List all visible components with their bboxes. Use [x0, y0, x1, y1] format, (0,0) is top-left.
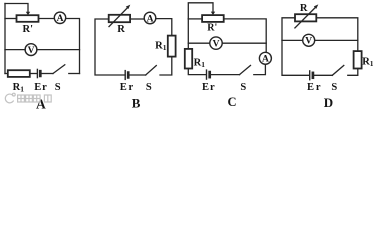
wire B right lower vertical — [160, 57, 172, 75]
svg-text:A: A — [57, 14, 64, 24]
svg-text:R1: R1 — [362, 57, 373, 69]
wire B left side — [95, 19, 125, 75]
rheostat R arrow (B) — [109, 5, 130, 27]
svg-text:S: S — [146, 82, 152, 93]
svg-text:S: S — [240, 82, 246, 93]
svg-text:R': R' — [23, 24, 34, 35]
rheostat R body (B) — [109, 15, 130, 22]
svg-text:V: V — [305, 37, 312, 47]
resistor R1 body (D) — [354, 51, 362, 68]
circuit B — [95, 5, 176, 111]
wire A battery to switch — [42, 73, 53, 75]
svg-text:C: C — [228, 95, 237, 109]
circuit A — [5, 4, 80, 112]
battery E,r (B) — [125, 71, 128, 80]
wire C left vertical — [187, 19, 189, 49]
wire A left vertical — [4, 4, 6, 74]
watermark — [5, 93, 51, 103]
circuit D — [282, 3, 373, 110]
svg-text:B: B — [132, 95, 141, 109]
wire C voltmeter branch right — [222, 42, 266, 44]
switch S contact wire (A) — [69, 73, 80, 75]
svg-text:R1: R1 — [155, 41, 167, 53]
wire A bottom mid — [30, 73, 37, 75]
rheostat R arrow (D) — [295, 4, 318, 28]
wire C voltmeter branch left — [188, 42, 210, 44]
wire A voltmeter branch right — [37, 49, 80, 51]
wire C ammeter to bottom — [254, 64, 266, 74]
wire C left lower — [188, 69, 206, 75]
rheostat R' slider arrow (A) — [26, 12, 30, 16]
svg-text:R1: R1 — [13, 82, 25, 94]
wire C battery to switch — [211, 74, 239, 76]
switch S blade (C) — [240, 65, 251, 74]
svg-text:V: V — [213, 40, 220, 50]
switch S blade (B) — [146, 66, 157, 75]
wire B row1 mid — [130, 18, 144, 20]
circuit C — [185, 3, 272, 109]
svg-text:Er: Er — [202, 82, 215, 93]
wire D top right — [316, 18, 358, 51]
wire D voltmeter branch left — [282, 39, 303, 41]
wire A row1 left — [5, 18, 17, 20]
svg-text:R: R — [117, 24, 125, 35]
svg-text:A: A — [147, 14, 154, 24]
battery E,r (D) — [310, 71, 313, 80]
wire A slider loop — [5, 4, 28, 13]
wire C slider loop — [188, 3, 213, 19]
ammeter A (B) — [144, 12, 156, 24]
switch S blade (D) — [332, 65, 344, 75]
ammeter A (C) — [259, 52, 271, 64]
wire A bottom left — [5, 73, 8, 75]
wire D battery to switch — [314, 74, 332, 76]
resistor R1 body (B) — [168, 36, 176, 57]
wire B battery to switch — [130, 74, 146, 76]
svg-text:S: S — [331, 82, 337, 93]
svg-text:Er: Er — [120, 82, 134, 93]
rheostat R' body (C) — [202, 15, 224, 22]
battery E,r (A) — [37, 69, 40, 77]
resistor R1 body (A) — [8, 70, 30, 77]
svg-text:D: D — [324, 95, 333, 109]
resistor R1 body (C) — [185, 49, 192, 69]
wire B top right — [156, 19, 172, 36]
ammeter A1 — [54, 12, 65, 24]
voltmeter V (A) — [25, 44, 37, 56]
svg-text:A: A — [262, 55, 269, 65]
svg-text:S: S — [55, 82, 61, 93]
wire A row1 right — [66, 19, 80, 74]
svg-text:Er: Er — [34, 82, 47, 93]
svg-text:V: V — [28, 46, 35, 56]
wire D left side — [282, 18, 309, 76]
rheostat R body (D) — [295, 14, 316, 21]
svg-text:Er: Er — [307, 82, 321, 93]
wire A row1 mid — [39, 18, 55, 20]
voltmeter V (D) — [303, 34, 315, 46]
wire C row1 right — [224, 19, 267, 53]
wire D right lower — [348, 69, 358, 76]
battery E,r (C) — [207, 70, 210, 79]
wire C row1 left — [188, 18, 202, 20]
svg-text:R: R — [300, 3, 308, 14]
rheostat R' body (A) — [17, 15, 39, 22]
svg-text:R1: R1 — [194, 57, 206, 69]
voltmeter V (C) — [210, 37, 222, 50]
wire D voltmeter branch right — [315, 39, 358, 41]
svg-text:R': R' — [207, 23, 217, 34]
switch S blade (A) — [53, 65, 65, 74]
wire A voltmeter branch left — [5, 49, 25, 51]
rheostat R' slider arrow (C) — [211, 12, 215, 16]
